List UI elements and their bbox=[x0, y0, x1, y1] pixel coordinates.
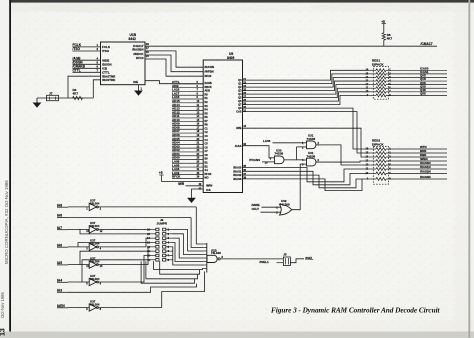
svg-text:74S08: 74S08 bbox=[307, 137, 316, 141]
svg-text:74LS04: 74LS04 bbox=[90, 302, 100, 306]
svg-text:RFCK: RFCK bbox=[205, 173, 212, 176]
svg-text:JUMPR: JUMPR bbox=[157, 222, 168, 226]
svg-text:/WR: /WR bbox=[178, 182, 185, 186]
svg-text:/RAS1N: /RAS1N bbox=[420, 165, 431, 169]
svg-text:J7: J7 bbox=[49, 91, 53, 95]
svg-text:/ISEL: /ISEL bbox=[305, 257, 313, 261]
svg-text:Figure 3 - Dynamic RAM Control: Figure 3 - Dynamic RAM Controller And De… bbox=[271, 306, 441, 315]
svg-text:74LS04: 74LS04 bbox=[90, 224, 100, 228]
svg-text:IA5: IA5 bbox=[57, 261, 62, 265]
svg-text:/RAS3N: /RAS3N bbox=[420, 175, 431, 179]
svg-text:74LS30: 74LS30 bbox=[211, 251, 222, 255]
svg-text:8409: 8409 bbox=[227, 56, 235, 60]
svg-text:LA06: LA06 bbox=[263, 139, 271, 143]
svg-text:/TRANS: /TRANS bbox=[249, 158, 260, 162]
svg-text:DIPACK: DIPACK bbox=[372, 142, 384, 146]
svg-text:15: 15 bbox=[146, 54, 149, 58]
svg-text:IA3: IA3 bbox=[57, 288, 62, 292]
svg-text:/CMA17: /CMA17 bbox=[421, 42, 433, 46]
svg-text:13: 13 bbox=[0, 328, 7, 336]
svg-text:74LS04: 74LS04 bbox=[90, 277, 100, 281]
svg-text:ADB: ADB bbox=[205, 90, 211, 93]
svg-text:74S08: 74S08 bbox=[275, 152, 284, 156]
svg-text:/RASIN: /RASIN bbox=[205, 65, 214, 69]
svg-text:+5: +5 bbox=[159, 171, 163, 175]
svg-text:RF10: RF10 bbox=[205, 74, 212, 78]
svg-text:/RAS2N: /RAS2N bbox=[420, 170, 431, 174]
svg-text:4K7: 4K7 bbox=[387, 37, 393, 41]
svg-text:IA8: IA8 bbox=[57, 203, 62, 207]
svg-text:74LS04: 74LS04 bbox=[90, 202, 100, 206]
svg-text:/CAS: /CAS bbox=[235, 144, 242, 148]
svg-text:IA7: IA7 bbox=[57, 226, 62, 230]
svg-text:IA6: IA6 bbox=[57, 214, 62, 218]
svg-text:/WE: /WE bbox=[236, 126, 241, 130]
svg-text:Q5S: Q5S bbox=[420, 92, 426, 96]
svg-text:RF10: RF10 bbox=[136, 56, 144, 60]
svg-text:CFLT: CFLT bbox=[252, 207, 260, 211]
svg-text:/TSO: /TSO bbox=[73, 47, 81, 51]
svg-text:Oct-Nov 1986: Oct-Nov 1986 bbox=[0, 291, 5, 318]
svg-text:IAEN: IAEN bbox=[57, 304, 65, 308]
svg-text:J5: J5 bbox=[283, 253, 287, 257]
svg-text:IA4: IA4 bbox=[57, 278, 62, 282]
svg-text:+5: +5 bbox=[381, 20, 385, 24]
svg-text:18: 18 bbox=[146, 42, 149, 46]
svg-text:RBCK: RBCK bbox=[205, 86, 212, 89]
svg-text:/WFBN: /WFBN bbox=[205, 70, 214, 74]
svg-text:8442: 8442 bbox=[129, 37, 137, 41]
svg-text:RAHB: RAHB bbox=[205, 82, 212, 85]
svg-text:DIPACK: DIPACK bbox=[372, 62, 384, 66]
svg-text:/RASTRD: /RASTRD bbox=[102, 78, 116, 82]
svg-text:CTTL: CTTL bbox=[73, 68, 81, 72]
svg-text:IA6: IA6 bbox=[57, 243, 62, 247]
svg-text:/TSO: /TSO bbox=[102, 49, 110, 53]
svg-text:RFCK: RFCK bbox=[172, 175, 181, 179]
svg-text:/RAS3: /RAS3 bbox=[233, 177, 242, 181]
svg-text:MO: MO bbox=[205, 177, 209, 180]
svg-text:/OE: /OE bbox=[133, 80, 138, 84]
svg-text:4K7: 4K7 bbox=[73, 92, 79, 96]
svg-text:CAS: CAS bbox=[236, 111, 242, 114]
svg-text:MICRO CORNUCOPIA, #32 Oct-Nov: MICRO CORNUCOPIA, #32 Oct-Nov 1986 bbox=[4, 180, 9, 264]
svg-text:/CS: /CS bbox=[206, 188, 211, 192]
svg-text:/ISEL1: /ISEL1 bbox=[260, 260, 270, 264]
